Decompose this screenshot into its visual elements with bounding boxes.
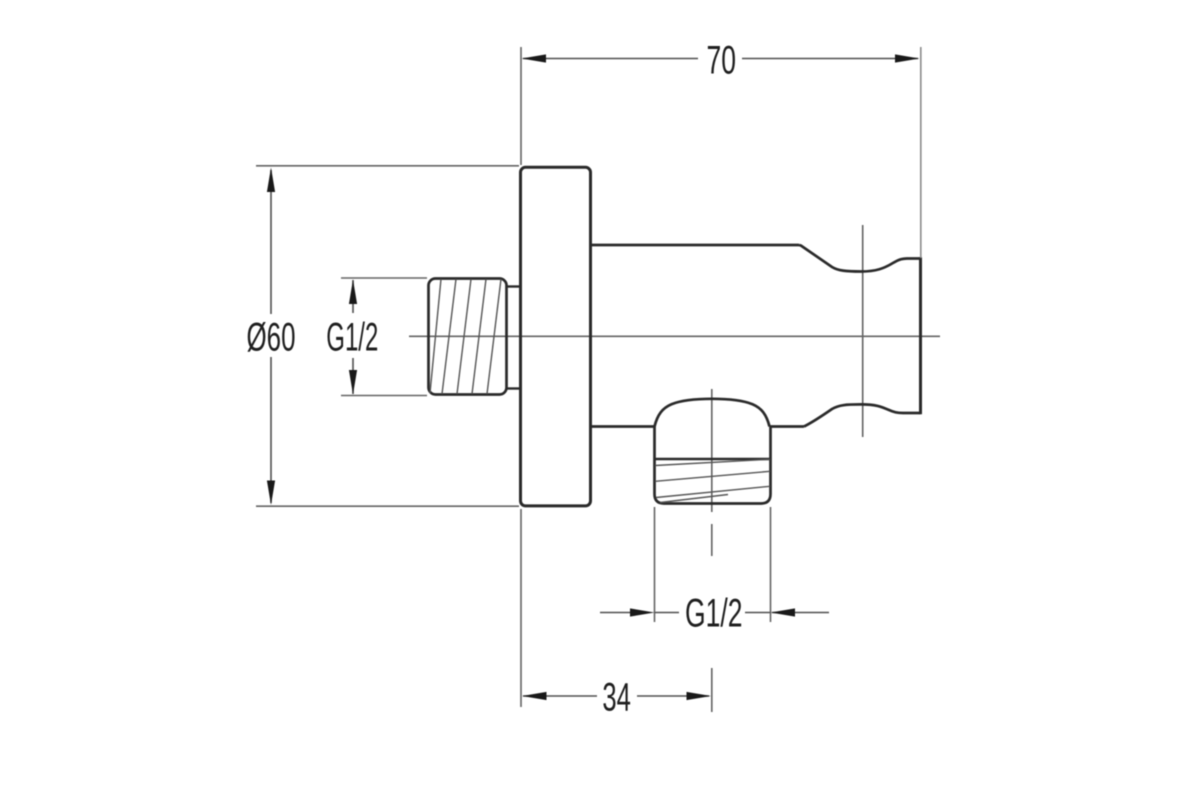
outlet dome — [655, 399, 770, 427]
outlet nut thread lines — [655, 459, 770, 502]
holder bottom profile — [804, 404, 921, 426]
extension line 70 right — [920, 47, 922, 258]
extension line G12 left bottom — [341, 395, 427, 397]
dimension G12 bottom arrows — [630, 608, 655, 616]
dimension D60 line — [270, 170, 272, 503]
dimension 34 arrows — [522, 692, 547, 700]
svg-text:G1/2: G1/2 — [685, 592, 743, 636]
outlet nut shoulder line — [655, 458, 771, 460]
dimension 70 arrows — [522, 54, 547, 62]
extension line 70 left — [520, 47, 522, 165]
svg-text:34: 34 — [602, 676, 631, 720]
body bottom line right of outlet — [770, 425, 805, 428]
extension line D60 bottom — [256, 505, 519, 507]
dimension D60 arrows — [267, 168, 275, 193]
inlet nipple G1/2 — [429, 279, 507, 395]
extension line D60 top — [256, 165, 519, 167]
dimension 34 line — [523, 695, 709, 697]
body top line — [591, 244, 800, 247]
holder top profile — [799, 245, 921, 272]
svg-text:G1/2: G1/2 — [326, 316, 378, 360]
dimension G12 left line — [352, 280, 354, 394]
holder right edge — [919, 257, 922, 414]
body bottom line left of outlet — [591, 425, 655, 428]
svg-text:70: 70 — [707, 39, 737, 83]
center line holder vertical — [862, 225, 864, 437]
extension line G12 left top — [341, 277, 427, 279]
center line outlet vertical — [711, 389, 713, 712]
extension line G12 bottom right — [770, 507, 772, 622]
collar between nipple and flange — [507, 287, 521, 389]
extension line G12 bottom left — [654, 507, 656, 622]
center line horizontal axis — [409, 335, 940, 337]
outlet nut — [655, 427, 771, 504]
extension line 34 left — [520, 509, 522, 707]
wall flange — [521, 167, 591, 506]
dimension G12 left arrows — [349, 280, 357, 305]
nipple thread lines — [430, 279, 501, 394]
dimension 70 line — [523, 58, 918, 60]
dimension G12 bottom line — [600, 612, 829, 614]
svg-text:Ø60: Ø60 — [247, 316, 296, 360]
